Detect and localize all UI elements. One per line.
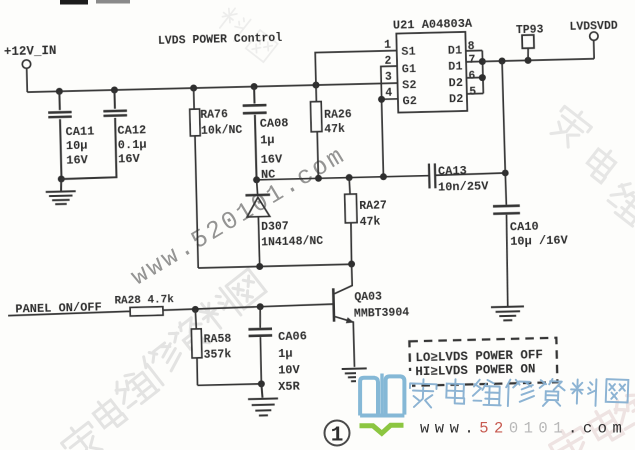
junction dot pin6 xyxy=(479,74,486,81)
svg-text:CA11: CA11 xyxy=(65,124,94,139)
junction dot CA13 right xyxy=(502,169,509,176)
svg-text:47k: 47k xyxy=(324,123,345,137)
wire RA76/D307 bottom link xyxy=(198,264,351,268)
svg-text:16V: 16V xyxy=(118,152,141,167)
watermark: gray diagonal phrase bottom-left xyxy=(58,269,266,450)
wire mid bus xyxy=(257,174,430,180)
junction dot pin7 xyxy=(479,58,486,65)
svg-text:+12V_IN: +12V_IN xyxy=(4,44,57,59)
junction dot CA13 branch xyxy=(498,57,505,64)
svg-text:357k: 357k xyxy=(203,348,231,362)
test point TP93 xyxy=(522,35,534,61)
junction dot CA08 xyxy=(251,83,258,90)
svg-text:U21 A04803A: U21 A04803A xyxy=(393,17,473,33)
svg-text:D2: D2 xyxy=(449,92,464,106)
logo open book blue pages xyxy=(360,374,404,416)
op-amp U21 A04803A dual mosfet xyxy=(396,32,467,113)
pin labels D1 D1 D2 D2 xyxy=(448,43,464,106)
wire from +12V terminal to top bus xyxy=(26,68,29,92)
junction dot D307 bottom xyxy=(256,263,263,270)
svg-text:D1: D1 xyxy=(448,43,463,57)
junction dot CA11 xyxy=(56,88,63,95)
pin numbers 8 7 6 5 xyxy=(468,40,477,99)
svg-text:16V: 16V xyxy=(66,153,89,168)
svg-text:LVDSVDD: LVDSVDD xyxy=(569,20,618,34)
svg-text:LVDS POWER Control: LVDS POWER Control xyxy=(158,32,283,48)
scan artifact marks top-left xyxy=(60,0,88,5)
resistor RA58 xyxy=(191,309,203,385)
svg-text:CA13: CA13 xyxy=(438,164,467,179)
svg-text:RA58: RA58 xyxy=(204,333,232,347)
junction dot G-tie bottom xyxy=(380,173,387,180)
junction dot G2 xyxy=(378,96,385,103)
svg-text:10V: 10V xyxy=(278,363,301,378)
svg-text:G2: G2 xyxy=(402,94,417,108)
capacitor CA12 xyxy=(59,90,128,179)
watermark: pink chars bottom-right corner xyxy=(547,386,635,450)
svg-text:TP93: TP93 xyxy=(516,23,544,37)
junction dot CA06 bottom xyxy=(258,380,265,387)
svg-text:MMBT3904: MMBT3904 xyxy=(354,306,410,320)
svg-text:CA06: CA06 xyxy=(278,329,307,344)
diode D307 xyxy=(245,180,272,267)
terminal LVDSVDD xyxy=(590,32,599,41)
svg-text:HI≥LVDS POWER ON: HI≥LVDS POWER ON xyxy=(415,362,535,379)
logo green swoosh xyxy=(360,425,404,433)
ground below QA03 emitter xyxy=(342,368,367,381)
junction dot RA26 bottom xyxy=(315,175,322,182)
capacitor CA10 xyxy=(493,206,522,307)
ground below CA11 xyxy=(45,179,76,205)
svg-text:1N4148/NC: 1N4148/NC xyxy=(261,235,324,250)
wire bus to IC pin 1 xyxy=(315,51,397,85)
junction dot RA27 top xyxy=(346,174,353,181)
junction dot RA76 xyxy=(190,84,197,91)
terminal +12V_IN xyxy=(22,60,31,69)
junction dot RA58 xyxy=(192,306,199,313)
capacitor CA13 xyxy=(429,162,506,189)
svg-text:RA76: RA76 xyxy=(200,108,228,122)
svg-text:S2: S2 xyxy=(402,78,417,92)
junction dot CA08/D307 xyxy=(253,176,260,183)
svg-text:16V: 16V xyxy=(260,152,283,167)
svg-text:1µ: 1µ xyxy=(278,347,293,361)
svg-text:RA26: RA26 xyxy=(324,108,352,122)
junction dot TP93 xyxy=(524,57,531,64)
junction dot CA12 xyxy=(111,86,118,93)
resistor RA28 xyxy=(130,307,163,316)
note box dashed xyxy=(409,338,557,386)
svg-text:CA08: CA08 xyxy=(260,116,289,131)
logo white backing xyxy=(356,371,412,442)
wire G1-G2 tie to mid bus xyxy=(381,66,400,177)
svg-text:www.520101.com: www.520101.com xyxy=(420,420,627,438)
resistor RA26 xyxy=(310,85,323,179)
svg-text:4: 4 xyxy=(385,87,392,100)
junction dot RA27 bottom / collector xyxy=(348,260,355,267)
watermark: faint chars top-center xyxy=(214,4,278,62)
wire pins 8-7-6-5 bracket xyxy=(466,50,484,93)
svg-text:7: 7 xyxy=(468,53,475,66)
svg-text:5: 5 xyxy=(469,86,476,99)
svg-text:0.1µ: 0.1µ xyxy=(118,138,147,153)
svg-text:CA12: CA12 xyxy=(117,123,146,138)
pin labels S1 G1 S2 G2 xyxy=(401,45,417,109)
svg-text:X5R: X5R xyxy=(278,380,301,395)
svg-text:10n/25V: 10n/25V xyxy=(438,179,490,194)
svg-text:1: 1 xyxy=(331,425,344,448)
blue watermark phrase xyxy=(409,378,628,407)
capacitor CA11 xyxy=(48,91,74,179)
wire top +12V bus xyxy=(27,83,397,92)
page number circled 1 xyxy=(325,421,350,448)
svg-text:QA03: QA03 xyxy=(354,290,382,304)
svg-text:47k: 47k xyxy=(359,215,380,229)
svg-text:1: 1 xyxy=(384,39,391,52)
svg-text:10k/NC: 10k/NC xyxy=(201,124,243,138)
svg-text:CA10: CA10 xyxy=(510,220,539,235)
svg-text:RA27: RA27 xyxy=(359,199,387,213)
capacitor CA08 xyxy=(242,86,268,178)
junction dot RA26 / pin1 xyxy=(312,81,319,88)
resistor RA27 xyxy=(344,177,358,264)
pin numbers 1 2 3 4 xyxy=(384,39,392,100)
svg-text:6: 6 xyxy=(468,70,475,83)
transistor QA03 xyxy=(333,264,355,367)
svg-text:2: 2 xyxy=(384,55,391,68)
watermark: gray diagonal chars top-right xyxy=(546,102,635,227)
capacitor CA06 xyxy=(248,306,273,384)
svg-text:10µ: 10µ xyxy=(66,139,88,154)
junction dot CA11 ground xyxy=(58,175,65,182)
ground below CA10 xyxy=(491,306,524,320)
svg-text:RA28 4.7k: RA28 4.7k xyxy=(114,294,174,307)
svg-text:S1: S1 xyxy=(401,45,416,59)
wire output net to LVDSVDD xyxy=(482,40,594,61)
wire RA58 bottom to CA06 bottom xyxy=(197,384,261,386)
junction dot CA06 xyxy=(257,303,264,310)
svg-text:1µ: 1µ xyxy=(260,133,275,147)
wire right branch down to CA10 xyxy=(502,61,506,205)
svg-text:G1: G1 xyxy=(402,62,417,76)
svg-text:D307: D307 xyxy=(261,220,289,234)
ground below CA06 xyxy=(248,383,279,415)
resistor RA76 xyxy=(189,88,203,268)
svg-text:3: 3 xyxy=(385,71,392,84)
svg-text:D2: D2 xyxy=(448,76,463,90)
svg-text:D1: D1 xyxy=(448,59,463,73)
svg-text:10µ /16V: 10µ /16V xyxy=(510,234,569,249)
wire PANEL ON/OFF line to QA03 base xyxy=(8,304,334,316)
